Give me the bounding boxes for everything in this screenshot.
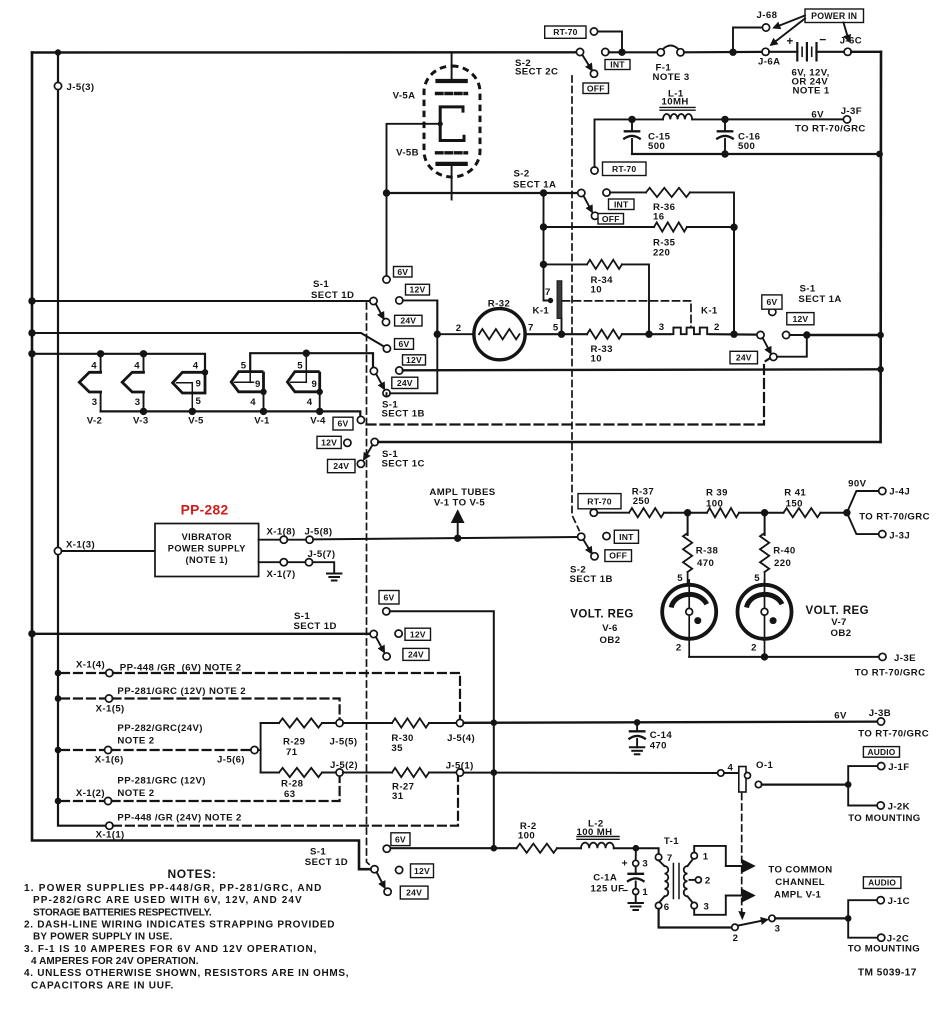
- wire 12V bus to right: [403, 369, 881, 370]
- svg-text:5: 5: [754, 573, 760, 584]
- svg-text:PP-448 /GR (6V) NOTE 2: PP-448 /GR (6V) NOTE 2: [120, 663, 242, 674]
- connector J-6A: [762, 48, 769, 55]
- svg-text:AMPL V-1: AMPL V-1: [774, 890, 822, 901]
- contact 12V of S-1 1D mid: [395, 630, 402, 637]
- svg-text:STORAGE BATTERIES RESPECTIVELY: STORAGE BATTERIES RESPECTIVELY.: [33, 908, 212, 919]
- wire 6V drop to R-2 line: [493, 726, 495, 848]
- inductor L-2: [557, 847, 581, 849]
- svg-text:J-5(6): J-5(6): [217, 755, 245, 766]
- svg-text:K-1: K-1: [701, 306, 718, 317]
- svg-text:J-1F: J-1F: [888, 762, 909, 773]
- svg-text:R 41: R 41: [784, 488, 806, 499]
- svg-text:4: 4: [728, 763, 734, 774]
- svg-text:INT: INT: [619, 532, 634, 542]
- connector J-5(2): [336, 769, 343, 776]
- contact 6V of S-1 1C: [357, 416, 364, 423]
- wire to fuse: [609, 51, 658, 53]
- label POWER IN: [805, 9, 864, 23]
- svg-text:V-4: V-4: [310, 416, 326, 427]
- svg-text:V-5B: V-5B: [396, 148, 419, 159]
- svg-text:J-1C: J-1C: [888, 896, 910, 907]
- wire fuse to J-6A: [684, 51, 762, 54]
- svg-text:4 AMPERES FOR 24V OPERATION.: 4 AMPERES FOR 24V OPERATION.: [31, 956, 199, 967]
- svg-text:12V: 12V: [410, 629, 426, 639]
- svg-text:2: 2: [751, 643, 757, 654]
- svg-text:24V: 24V: [333, 461, 349, 471]
- svg-text:CHANNEL: CHANNEL: [775, 877, 825, 888]
- svg-text:4: 4: [250, 397, 256, 408]
- contact 24V of S-1 1B: [392, 377, 418, 388]
- svg-text:TO MOUNTING: TO MOUNTING: [848, 813, 920, 824]
- svg-text:V-5A: V-5A: [393, 91, 416, 102]
- svg-text:3: 3: [704, 902, 710, 913]
- wire contact to S-1 1A: [711, 333, 757, 336]
- contact 24V of S-1 1D bottom: [400, 886, 428, 899]
- wire heater rail (V-1 V-4): [250, 353, 373, 371]
- svg-text:2: 2: [456, 323, 462, 334]
- svg-text:2. DASH-LINE WIRING INDICATE: 2. DASH-LINE WIRING INDICATES STRAPPING …: [24, 920, 335, 931]
- svg-text:12V: 12V: [792, 314, 808, 324]
- svg-text:6V: 6V: [397, 267, 408, 277]
- svg-text:PP-281/GRC (12V): PP-281/GRC (12V): [117, 776, 206, 787]
- svg-text:12V: 12V: [406, 355, 422, 365]
- resistor R-37: [597, 512, 629, 514]
- svg-text:24V: 24V: [408, 650, 424, 660]
- svg-text:2: 2: [714, 322, 720, 333]
- resistor R-33: [587, 330, 622, 339]
- contact INT of S-2 2C: [602, 48, 609, 55]
- svg-text:100: 100: [706, 499, 723, 510]
- svg-text:4: 4: [91, 361, 97, 372]
- svg-text:K-1: K-1: [533, 306, 550, 317]
- svg-text:6V: 6V: [399, 339, 410, 349]
- connector X-1(4) strap row: [55, 670, 62, 677]
- contact 24V of S-1 1A: [730, 351, 758, 364]
- svg-text:SECT 1D: SECT 1D: [294, 621, 337, 632]
- svg-text:5: 5: [241, 361, 247, 372]
- svg-text:6: 6: [664, 902, 670, 913]
- contact RT-70 of S-2 1B: [590, 509, 597, 516]
- arrow to common channel lower: [726, 895, 753, 897]
- svg-text:R-38: R-38: [696, 546, 719, 557]
- svg-text:J-5(5): J-5(5): [330, 737, 358, 748]
- svg-text:OFF: OFF: [609, 551, 627, 561]
- connector J-6C: [844, 48, 851, 55]
- label AUDIO upper: [863, 747, 899, 758]
- svg-text:X-1(6): X-1(6): [95, 755, 124, 766]
- contact 12V of S-1 1B: [396, 367, 403, 374]
- svg-text:V-5: V-5: [188, 416, 204, 427]
- svg-text:63: 63: [284, 789, 295, 800]
- wire top rail: [32, 51, 577, 54]
- svg-text:X-1(1): X-1(1): [96, 830, 125, 841]
- svg-text:6V: 6V: [811, 110, 824, 121]
- svg-text:INT: INT: [610, 60, 625, 70]
- svg-text:5: 5: [196, 396, 202, 407]
- svg-text:TO RT-70/GRC: TO RT-70/GRC: [855, 668, 926, 679]
- svg-text:125 UF: 125 UF: [591, 884, 625, 895]
- svg-text:220: 220: [653, 248, 670, 259]
- svg-text:4. UNLESS OTHERWISE SHOWN, RE: 4. UNLESS OTHERWISE SHOWN, RESISTORS ARE…: [24, 968, 349, 979]
- svg-text:10: 10: [591, 285, 602, 296]
- svg-text:S-1: S-1: [800, 284, 816, 295]
- svg-text:VOLT. REG: VOLT. REG: [806, 605, 869, 617]
- svg-text:4: 4: [134, 361, 140, 372]
- svg-text:35: 35: [391, 743, 403, 754]
- svg-text:R-40: R-40: [773, 546, 795, 557]
- resistor R-36: [610, 191, 646, 193]
- svg-text:100: 100: [518, 831, 535, 842]
- svg-text:V-6: V-6: [602, 623, 618, 634]
- box OFF of S-2 1B: [605, 550, 632, 562]
- svg-text:TO RT-70/GRC: TO RT-70/GRC: [858, 729, 929, 740]
- rheostat R-32: [474, 309, 525, 360]
- svg-text:X-1(3): X-1(3): [66, 540, 95, 551]
- svg-text:POWER SUPPLY: POWER SUPPLY: [168, 544, 246, 554]
- svg-text:4: 4: [307, 397, 313, 408]
- svg-text:5: 5: [677, 573, 683, 584]
- svg-text:NOTES:: NOTES:: [168, 867, 217, 881]
- wire S-2 1A down branch: [544, 193, 551, 301]
- svg-text:TM 5039-17: TM 5039-17: [858, 968, 917, 979]
- switch contact 3: [769, 915, 775, 921]
- wire J-6C to right bus: [851, 51, 881, 53]
- switch contact 2: [732, 924, 738, 930]
- dashed strap S-1 1C to S-1 1A: [367, 358, 771, 424]
- svg-text:SECT 1B: SECT 1B: [570, 574, 613, 585]
- wire right bus: [879, 52, 882, 442]
- svg-text:OB2: OB2: [831, 628, 852, 639]
- contact RT-70 of S-2 2C: [598, 32, 623, 53]
- resistor R 39: [684, 509, 691, 516]
- wire R-32 left: [437, 333, 474, 335]
- svg-text:PP-282/GRC(24V): PP-282/GRC(24V): [117, 723, 202, 734]
- svg-text:R 39: R 39: [706, 488, 728, 499]
- svg-text:V-7: V-7: [831, 617, 847, 628]
- label AUDIO lower: [863, 877, 901, 889]
- svg-text:AUDIO: AUDIO: [868, 747, 896, 757]
- wire cathode lead to S-1: [387, 124, 441, 193]
- svg-text:PP-281/GRC (12V) NOTE 2: PP-281/GRC (12V) NOTE 2: [117, 686, 246, 697]
- connector J-5(4): [456, 719, 463, 726]
- svg-text:V-2: V-2: [87, 416, 103, 427]
- box OFF of S-2 1A: [598, 214, 624, 225]
- contact 24V of S-1 1C: [328, 459, 356, 472]
- svg-text:S-2: S-2: [514, 169, 530, 180]
- wire heater top rail (V-2 V-3 V-5): [32, 354, 205, 373]
- svg-text:R-29: R-29: [283, 737, 305, 748]
- svg-text:AMPL TUBES: AMPL TUBES: [429, 487, 495, 498]
- svg-text:6V: 6V: [834, 711, 847, 722]
- connector X-1(5) strap row: [55, 695, 62, 702]
- svg-text:SECT 1A: SECT 1A: [798, 294, 841, 305]
- svg-text:9: 9: [255, 379, 261, 390]
- wire left outer bus: [32, 53, 371, 870]
- tube V-5 cathode: [440, 107, 464, 141]
- connector J-68: [733, 28, 762, 53]
- tube V-7 voltage regulator: [764, 580, 766, 608]
- wire J-5(4) row to J-3B: [464, 722, 878, 723]
- svg-text:12V: 12V: [321, 438, 337, 448]
- svg-text:OFF: OFF: [587, 83, 605, 93]
- tube V-5A plate: [451, 52, 453, 81]
- wire bus to S-1 1D mid: [32, 633, 370, 635]
- svg-text:SECT 1D: SECT 1D: [305, 857, 348, 868]
- svg-text:71: 71: [286, 747, 298, 758]
- wire S-1 1C to right bus: [378, 441, 880, 443]
- svg-text:10: 10: [591, 354, 602, 365]
- svg-text:C-14: C-14: [650, 730, 673, 741]
- svg-text:J-6C: J-6C: [840, 36, 862, 47]
- svg-text:10MH: 10MH: [662, 97, 689, 108]
- svg-text:470: 470: [650, 741, 667, 752]
- capacitor C-1A: [635, 848, 637, 860]
- svg-text:J-5(2): J-5(2): [330, 760, 358, 771]
- svg-text:V-3: V-3: [133, 416, 149, 427]
- svg-text:5: 5: [553, 323, 559, 334]
- svg-text:220: 220: [774, 558, 791, 569]
- svg-text:1: 1: [703, 852, 709, 863]
- connector X-1(7): [259, 561, 281, 563]
- svg-text:NOTE 2: NOTE 2: [117, 788, 154, 799]
- wire contact 3 to audio jacks: [775, 917, 848, 919]
- wire K-1 pin 5: [561, 319, 563, 332]
- svg-text:6V: 6V: [395, 834, 406, 844]
- svg-text:J-2K: J-2K: [888, 802, 910, 813]
- svg-text:3. F-1 IS 10 AMPERES FOR 6V A: 3. F-1 IS 10 AMPERES FOR 6V AND 12V OPER…: [24, 944, 317, 955]
- capacitor C-16: [724, 119, 726, 131]
- fuse F-1: [657, 49, 664, 56]
- ground after J-5(7): [313, 562, 335, 573]
- svg-text:7: 7: [545, 287, 551, 298]
- connector J-3J: [847, 513, 879, 534]
- connector J-5(1): [456, 769, 463, 776]
- box OFF of S-2 2C: [583, 83, 609, 94]
- svg-text:X-1(5): X-1(5): [96, 704, 125, 715]
- wire T-1 pin 1 to arrow: [694, 846, 726, 866]
- svg-text:J-3J: J-3J: [889, 531, 910, 542]
- connector J-5(7): [287, 561, 305, 563]
- svg-text:J-5(8): J-5(8): [305, 527, 333, 538]
- svg-text:31: 31: [392, 791, 404, 802]
- svg-text:+: +: [621, 858, 628, 870]
- resistor R-34: [544, 263, 588, 265]
- wire heater bottom rail: [101, 411, 361, 416]
- resistor R-40: [764, 513, 766, 535]
- svg-text:100 MH: 100 MH: [577, 827, 613, 838]
- svg-text:J-6A: J-6A: [758, 57, 780, 68]
- svg-text:RT-70: RT-70: [587, 496, 611, 506]
- svg-text:9: 9: [196, 379, 202, 390]
- resistor R-38: [687, 513, 689, 535]
- svg-text:470: 470: [697, 558, 714, 569]
- svg-text:500: 500: [648, 141, 665, 152]
- resistor R 41: [761, 509, 768, 516]
- capacitor C-14: [634, 719, 641, 726]
- tube V-1 heater: [249, 372, 251, 383]
- svg-text:24V: 24V: [736, 353, 752, 363]
- svg-text:SECT 1A: SECT 1A: [513, 180, 556, 191]
- svg-text:S-1: S-1: [310, 847, 326, 858]
- connector J-2C: [848, 918, 878, 937]
- svg-text:2: 2: [676, 643, 682, 654]
- svg-text:−: −: [819, 33, 826, 47]
- svg-text:SECT 1D: SECT 1D: [311, 290, 354, 301]
- resistor R-29: [261, 722, 279, 724]
- dashed S-2 gang linkage: [572, 76, 579, 531]
- jack O-1: [718, 770, 724, 776]
- svg-text:4: 4: [193, 361, 199, 372]
- svg-text:INT: INT: [614, 199, 629, 209]
- svg-text:J-3B: J-3B: [869, 708, 891, 719]
- contact 6V of S-1 1D bottom: [383, 845, 390, 852]
- svg-text:6V: 6V: [766, 297, 777, 307]
- wire V-6/V-7 pin 2 to J-3E: [689, 656, 879, 658]
- wire to J-3F: [725, 118, 844, 120]
- tube V-6 voltage regulator: [688, 580, 690, 608]
- svg-text:S-1: S-1: [313, 279, 329, 290]
- svg-text:3: 3: [775, 924, 781, 935]
- connector J-1C: [848, 900, 877, 918]
- node 90V branch: [843, 509, 850, 516]
- inductor L-1: [628, 116, 635, 123]
- svg-text:500: 500: [738, 141, 755, 152]
- svg-text:(NOTE 1): (NOTE 1): [186, 555, 229, 565]
- svg-text:TO RT-70/GRC: TO RT-70/GRC: [795, 124, 866, 135]
- svg-text:T-1: T-1: [664, 836, 679, 847]
- svg-text:7: 7: [667, 853, 673, 864]
- wire K-1 contact line: [525, 333, 587, 335]
- svg-text:NOTE 1: NOTE 1: [793, 86, 830, 97]
- svg-text:2: 2: [733, 933, 739, 944]
- switch arm 2-3: [738, 920, 767, 926]
- svg-text:3: 3: [92, 397, 98, 408]
- svg-text:1. POWER SUPPLIES PP-448/GR,: 1. POWER SUPPLIES PP-448/GR, PP-281/GRC,…: [24, 883, 323, 894]
- svg-text:X-1(7): X-1(7): [267, 569, 296, 580]
- svg-text:C-1A: C-1A: [593, 873, 617, 884]
- svg-text:J-5(7): J-5(7): [308, 549, 336, 560]
- resistor R-30: [343, 722, 392, 724]
- svg-text:TO MOUNTING: TO MOUNTING: [848, 944, 920, 955]
- connector J-5(6): [251, 746, 258, 753]
- svg-text:V-1: V-1: [254, 416, 270, 427]
- svg-text:PP-282: PP-282: [181, 503, 229, 518]
- svg-text:2: 2: [705, 876, 711, 887]
- contact 6V of S-1 1A: [769, 308, 776, 315]
- connector J-2K: [848, 785, 877, 806]
- svg-text:J-4J: J-4J: [889, 487, 910, 498]
- tube V-5B plate: [438, 162, 466, 166]
- wire bottom 6V line: [390, 847, 516, 849]
- contact INT of S-2 1A: [603, 189, 610, 196]
- svg-text:9: 9: [312, 379, 318, 390]
- contact 12V of S-1 1C: [344, 439, 351, 446]
- svg-text:24V: 24V: [400, 316, 416, 326]
- svg-text:X-1(4): X-1(4): [76, 660, 105, 671]
- wire T-1 pin 6 to contact 2: [659, 909, 732, 928]
- svg-text:VOLT. REG: VOLT. REG: [570, 609, 633, 621]
- svg-text:R-28: R-28: [281, 779, 304, 790]
- tube V-4 heater: [305, 353, 307, 382]
- svg-text:5: 5: [297, 361, 303, 372]
- tube V-5 heater: [202, 369, 208, 375]
- node junction dots on outer bus: [28, 297, 35, 304]
- connector J-5(8): [287, 539, 306, 541]
- connector J-3F: [843, 116, 850, 123]
- svg-text:3: 3: [659, 322, 665, 333]
- contact 6V of S-1 1D mid: [383, 608, 390, 615]
- wire filter bottom rail: [632, 153, 881, 155]
- svg-text:+: +: [786, 36, 793, 48]
- resistor R-27: [343, 772, 392, 774]
- svg-text:250: 250: [633, 496, 650, 507]
- svg-text:J-68: J-68: [757, 10, 778, 21]
- connector X-1(1) strap row: [105, 825, 107, 827]
- svg-text:90V: 90V: [848, 479, 866, 490]
- arrow to AMPL TUBES: [457, 512, 459, 538]
- contact 12V of S-1 1A: [783, 331, 790, 338]
- battery 6V/12V/24V: [769, 51, 797, 53]
- relay K-1 contact: [670, 328, 711, 335]
- svg-text:TO RT-70/GRC: TO RT-70/GRC: [859, 512, 930, 523]
- connector J-5(5): [336, 719, 343, 726]
- wire 6V contact down to J-5(4) line: [390, 611, 494, 719]
- svg-text:3: 3: [135, 397, 141, 408]
- svg-text:VIBRATOR: VIBRATOR: [182, 532, 232, 542]
- svg-text:SECT 1B: SECT 1B: [382, 409, 425, 420]
- svg-text:OFF: OFF: [602, 214, 620, 224]
- contact 6V of S-1 1D: [386, 193, 388, 276]
- contact 24V of S-1 1D: [395, 315, 422, 326]
- connector X-1(8): [259, 539, 281, 541]
- tube V-3 heater: [143, 354, 145, 373]
- contact 6V of S-1 1B: [383, 345, 390, 352]
- connector X-1(2) strap row: [55, 798, 62, 805]
- wire S-1 1D feed: [32, 300, 370, 302]
- svg-text:CAPACITORS ARE IN UUF.: CAPACITORS ARE IN UUF.: [31, 981, 174, 992]
- contact 12V of S-1 1D: [396, 297, 403, 304]
- contact INT of S-2 1B: [603, 533, 610, 540]
- wire J-5(8) to S-2 1B: [313, 537, 578, 539]
- svg-text:6V: 6V: [384, 592, 395, 602]
- tube V-2 heater: [100, 354, 102, 373]
- dashed S-1 gang linkage: [367, 303, 372, 867]
- connector J-3E: [879, 653, 886, 660]
- wire RT-70 up to filter: [595, 119, 629, 167]
- wire J-5(1) row to jack O-1: [464, 772, 718, 774]
- wire X-1(3) to vibrator: [62, 550, 156, 552]
- connector J-3B: [877, 718, 884, 725]
- resistor R-35: [544, 226, 655, 228]
- tube V-5 envelope: [424, 66, 480, 177]
- tube V-5B grid: [437, 151, 467, 154]
- resistor R-2: [517, 844, 558, 853]
- svg-text:3: 3: [642, 859, 648, 870]
- wire O-1 to audio jacks: [762, 783, 849, 785]
- capacitor C-15: [631, 119, 633, 131]
- svg-text:SECT 2C: SECT 2C: [515, 67, 558, 78]
- svg-text:J-3F: J-3F: [841, 106, 862, 117]
- wire S-1 1A to right bus: [807, 334, 881, 336]
- resistor R-28: [261, 772, 279, 774]
- contact 24V of S-1 1D mid: [403, 648, 429, 660]
- relay K-1 coil: [557, 281, 562, 319]
- power supply PP-282 box: [155, 524, 259, 577]
- svg-text:TO COMMON: TO COMMON: [768, 865, 832, 876]
- svg-text:NOTE 3: NOTE 3: [653, 72, 690, 83]
- dashed O-1 linkage: [741, 794, 743, 912]
- svg-text:X-1(8): X-1(8): [267, 527, 296, 538]
